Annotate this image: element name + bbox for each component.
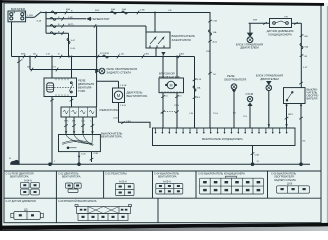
svg-text:L/BG: L/BG	[126, 121, 131, 123]
svg-text:А-05-А: А-05-А	[163, 181, 171, 184]
svg-text:БАТАРЕЯ: БАТАРЕЯ	[11, 7, 25, 11]
svg-text:0.5B: 0.5B	[255, 155, 260, 157]
svg-text:1.25L: 1.25L	[119, 54, 125, 56]
svg-text:W/G: W/G	[64, 120, 69, 122]
svg-text:ВЕНТИЛЯТОРА.: ВЕНТИЛЯТОРА.	[10, 176, 29, 179]
svg-text:C-08 ВТЯЖНОЙ ВЫКЛЮЧАТЕЛЬ: C-08 ВТЯЖНОЙ ВЫКЛЮЧАТЕЛЬ	[58, 200, 97, 203]
svg-text:СТ1М: СТ1М	[246, 92, 254, 96]
svg-text:0.5B: 0.5B	[213, 21, 218, 23]
svg-text:L/G: L/G	[81, 120, 85, 122]
svg-text:L/BG: L/BG	[144, 54, 149, 56]
svg-text:80A: 80A	[66, 8, 70, 11]
svg-text:U-06: U-06	[113, 118, 119, 120]
svg-text:ДВИГАТЕЛЕМ: ДВИГАТЕЛЕМ	[240, 46, 259, 50]
svg-text:W/R: W/R	[253, 20, 258, 22]
svg-text:1 0.5L: 1 0.5L	[120, 105, 127, 107]
svg-text:A-02: A-02	[213, 41, 218, 44]
svg-text:M: M	[117, 93, 121, 98]
svg-text:0.5B: 0.5B	[140, 10, 145, 12]
svg-text:ЗАЖИГАНИЯ: ЗАЖИГАНИЯ	[172, 38, 191, 42]
svg-text:ДВИГАТЕЛЕМ: ДВИГАТЕЛЕМ	[260, 77, 279, 81]
svg-text:7.5A: 7.5A	[304, 46, 309, 49]
svg-text:0.5B: 0.5B	[68, 17, 73, 19]
svg-text:L/B: L/B	[190, 113, 194, 115]
svg-text:BR/Y: BR/Y	[288, 114, 294, 116]
svg-text:B(22): B(22)	[68, 24, 74, 26]
svg-text:3Л РЕЛЕ: 3Л РЕЛЕ	[100, 53, 110, 55]
svg-text:T/LG: T/LG	[213, 113, 218, 115]
svg-text:1.25B: 1.25B	[27, 15, 33, 17]
svg-text:BO: BO	[233, 113, 236, 115]
svg-text:ВЕНТИЛЯТОРА,: ВЕНТИЛЯТОРА,	[101, 135, 123, 139]
svg-text:30A: 30A	[111, 8, 115, 11]
svg-text:15A: 15A	[213, 31, 217, 34]
svg-text:ОБОГРЕВАТЕЛЯ: ОБОГРЕВАТЕЛЯ	[224, 78, 246, 82]
svg-text:L/B: L/B	[160, 113, 164, 115]
svg-text:ЗАДНЕГО СТЕКЛА: ЗАДНЕГО СТЕКЛА	[274, 179, 296, 182]
svg-text:30A: 30A	[122, 8, 126, 11]
svg-text:10A: 10A	[197, 87, 201, 90]
svg-text:C-05 ВЫКЛЮЧАТЕЛЬ КОНДИЦИОНЕРА: C-05 ВЫКЛЮЧАТЕЛЬ КОНДИЦИОНЕРА	[198, 173, 245, 176]
svg-text:M: M	[170, 83, 173, 87]
svg-text:2 0.5B: 2 0.5B	[120, 85, 127, 87]
svg-text:Y/B: Y/B	[304, 56, 308, 58]
svg-text:X-05: X-05	[81, 154, 86, 156]
svg-text:ВАТЕЛЯ: ВАТЕЛЯ	[307, 97, 318, 101]
svg-text:ВЕНТИЛЯТОРА.: ВЕНТИЛЯТОРА.	[158, 176, 177, 179]
svg-text:C-03 РЕЗИСТОРЫ: C-03 РЕЗИСТОРЫ	[105, 173, 127, 176]
svg-text:РЕЗИСТОРЫ: РЕЗИСТОРЫ	[100, 108, 120, 112]
svg-text:U-04: U-04	[71, 48, 77, 50]
svg-text:ВЫКЛЮЧАТЕЛЬ КОНДИЦИОНЕРА: ВЫКЛЮЧАТЕЛЬ КОНДИЦИОНЕРА	[202, 138, 243, 141]
svg-text:Y/LG: Y/LG	[174, 105, 179, 107]
svg-text:ГЕНЕРАТОР: ГЕНЕРАТОР	[92, 17, 110, 21]
svg-text:Y/R: Y/R	[284, 17, 288, 19]
svg-text:S-08: S-08	[37, 21, 42, 23]
svg-text:Д-06: Д-06	[287, 183, 293, 186]
svg-text:C-07 ДАТЧИК ДАВЛЕНИЯ: C-07 ДАТЧИК ДАВЛЕНИЯ	[6, 200, 36, 203]
svg-text:ТОРА: ТОРА	[78, 89, 85, 93]
svg-text:ДД: ДД	[24, 209, 28, 212]
svg-text:ЗАДНЕГО СТЕКЛА: ЗАДНЕГО СТЕКЛА	[107, 71, 132, 75]
svg-text:А-03-А: А-03-А	[119, 181, 127, 184]
svg-text:Y/BL: Y/BL	[304, 36, 310, 38]
svg-text:S-07: S-07	[71, 40, 76, 42]
svg-text:КОНДИЦИОНЕРА: КОНДИЦИОНЕРА	[268, 32, 292, 36]
svg-text:0.5Y: 0.5Y	[303, 67, 308, 69]
svg-text:ВЕНТИЛЯТОРА.: ВЕНТИЛЯТОРА.	[62, 176, 81, 179]
svg-text:Y/G: Y/G	[243, 116, 247, 118]
svg-text:ВЕНТИЛЯТОРА.: ВЕНТИЛЯТОРА.	[127, 94, 149, 98]
svg-text:Y/G: Y/G	[52, 67, 56, 69]
svg-text:L/BG: L/BG	[179, 54, 184, 56]
svg-text:P/B: P/B	[206, 51, 210, 53]
svg-text:ВЫКЛЮЧАТЕЛЬ: ВЫКЛЮЧАТЕЛЬ	[159, 75, 180, 79]
svg-text:0.5B: 0.5B	[94, 153, 99, 155]
svg-text:B-16: B-16	[197, 79, 202, 81]
svg-text:L/R: L/R	[168, 10, 172, 12]
